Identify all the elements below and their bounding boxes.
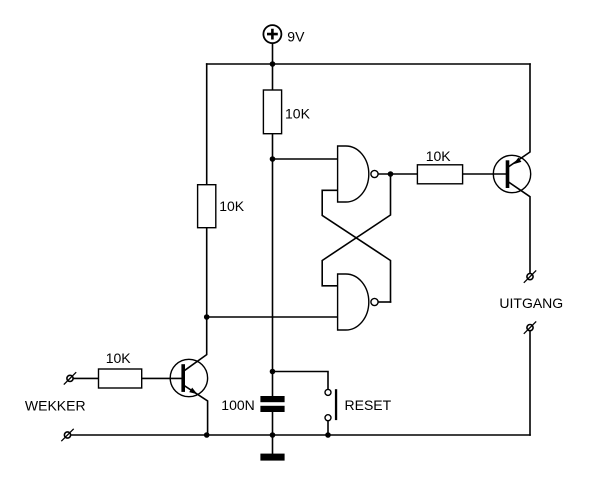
svg-text:RESET: RESET <box>345 397 392 413</box>
svg-text:UITGANG: UITGANG <box>499 295 563 311</box>
svg-text:10K: 10K <box>106 350 132 366</box>
svg-text:10K: 10K <box>426 148 452 164</box>
svg-text:9V: 9V <box>287 28 305 44</box>
svg-text:100N: 100N <box>221 397 254 413</box>
svg-text:10K: 10K <box>285 105 311 121</box>
svg-text:WEKKER: WEKKER <box>25 398 86 414</box>
svg-text:10K: 10K <box>219 198 245 214</box>
